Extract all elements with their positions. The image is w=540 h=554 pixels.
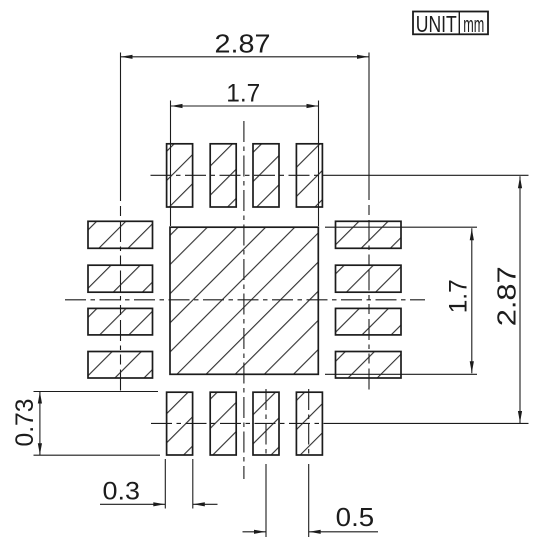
svg-text:2.87: 2.87 bbox=[492, 266, 522, 326]
bottom pad 1 bbox=[167, 392, 193, 455]
extension line 0.73 top bbox=[34, 391, 159, 393]
dimension 0.73: top arrow bbox=[38, 392, 42, 404]
left pad 2 bbox=[88, 265, 153, 292]
left pad 1 bbox=[88, 221, 153, 248]
centerline bottom pad 3 bbox=[265, 389, 267, 537]
bottom pad 2 bbox=[210, 392, 236, 455]
dimension 1.7 right: bottom arrow bbox=[470, 361, 474, 373]
svg-text:UNIT: UNIT bbox=[416, 11, 457, 37]
dimension 2.87 top: line bbox=[121, 56, 370, 58]
top pad 1 bbox=[167, 144, 193, 207]
centerline right pad column bbox=[368, 53, 370, 393]
left pad 3 bbox=[88, 308, 153, 335]
centerline horizontal main bbox=[65, 299, 425, 301]
svg-text:2.87: 2.87 bbox=[215, 28, 271, 58]
centerline left pad column bbox=[120, 53, 122, 392]
svg-text:mm: mm bbox=[463, 12, 484, 37]
dimension 1.7 right: line bbox=[471, 228, 473, 373]
dimension 2.87 right: line bbox=[519, 176, 521, 423]
bottom pad 4 bbox=[296, 392, 322, 455]
right pad 4 bbox=[336, 352, 402, 379]
bottom pad 3 bbox=[253, 392, 279, 455]
unit box bbox=[413, 11, 488, 37]
top pad 2 bbox=[210, 144, 236, 207]
svg-text:0.73: 0.73 bbox=[11, 399, 39, 447]
dimension 1.7 right: top arrow bbox=[470, 229, 474, 241]
extension line 1.7 right bottom bbox=[325, 373, 477, 375]
dimension 1.7 top: right arrow bbox=[307, 104, 319, 108]
extension line 0.3 right bbox=[192, 459, 194, 509]
svg-text:1.7: 1.7 bbox=[444, 279, 472, 313]
dimension 2.87 right: top arrow bbox=[518, 177, 522, 189]
top pad 4 bbox=[296, 144, 322, 207]
svg-text:1.7: 1.7 bbox=[226, 80, 260, 108]
left pad 4 bbox=[88, 352, 153, 379]
dimension 1.7 top: left arrow bbox=[171, 104, 183, 108]
svg-text:0.3: 0.3 bbox=[103, 477, 141, 505]
dimension 0.73: bottom arrow bbox=[38, 443, 42, 455]
centerline vertical main bbox=[243, 121, 245, 479]
dimension 0.3 bottom: right line and arrow bbox=[193, 503, 218, 505]
extension line 1.7 top left bbox=[170, 101, 172, 227]
dimension 2.87 top: right arrow bbox=[357, 55, 369, 59]
extension line 0.73 bottom bbox=[34, 454, 161, 456]
dimension 2.87 top: left arrow bbox=[121, 55, 133, 59]
top pad 3 bbox=[253, 144, 279, 207]
dimension 0.5 bottom: left line and arrow bbox=[243, 531, 267, 533]
extension line 1.7 top right bbox=[318, 101, 320, 227]
extension line 0.3 left bbox=[164, 459, 166, 509]
center pad bbox=[170, 227, 318, 374]
svg-text:0.5: 0.5 bbox=[336, 502, 375, 532]
dimension 0.5 bottom: right line and arrow bbox=[309, 531, 378, 533]
dimension 1.7 top: line bbox=[171, 105, 319, 107]
right pad 3 bbox=[336, 308, 402, 335]
dimension 0.3 bottom: left line and arrow bbox=[100, 503, 165, 505]
dimension 2.87 right: bottom arrow bbox=[518, 411, 522, 423]
centerline bottom pad row bbox=[151, 422, 529, 424]
dimension 0.73 left: line bbox=[39, 392, 41, 456]
centerline bottom pad 4 bbox=[308, 389, 310, 537]
extension line 1.7 right top bbox=[325, 226, 477, 228]
right pad 1 bbox=[336, 221, 402, 248]
right pad 2 bbox=[336, 265, 402, 292]
centerline top pad row bbox=[151, 174, 529, 176]
